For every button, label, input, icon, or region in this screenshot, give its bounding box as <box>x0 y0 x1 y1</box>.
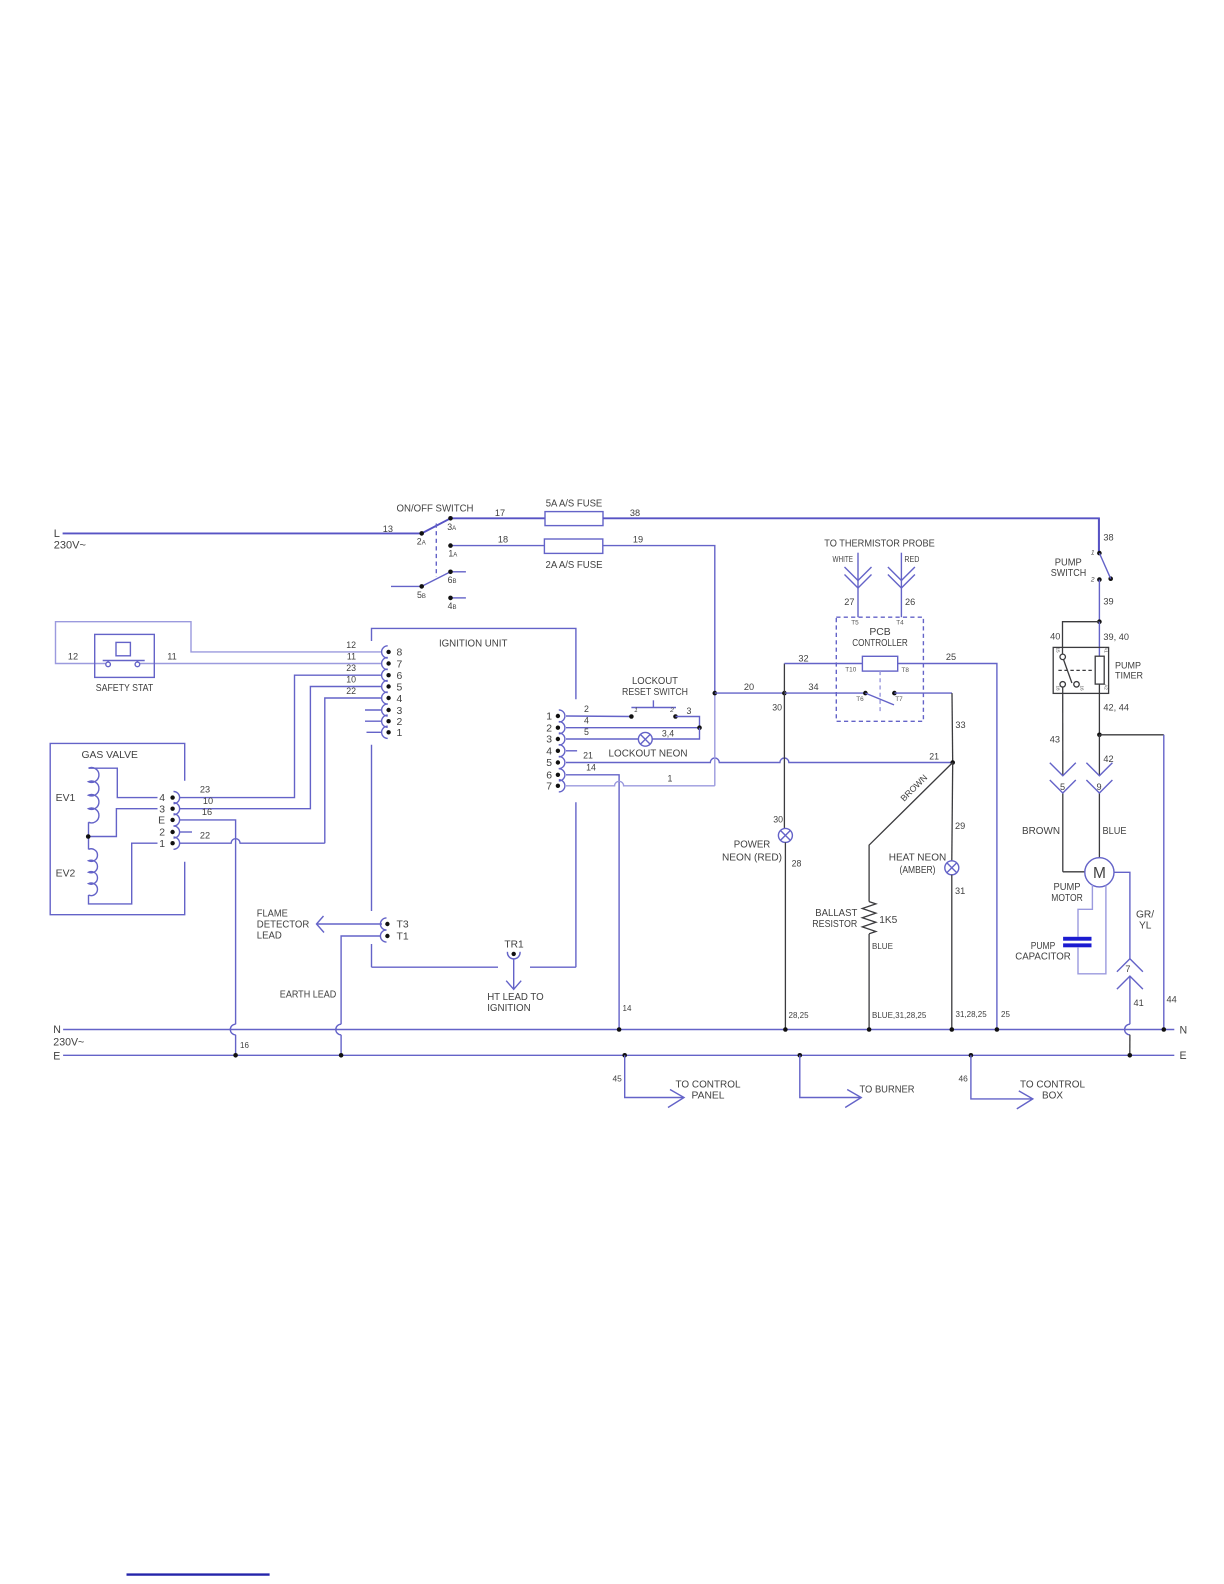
svg-text:M: M <box>1093 865 1106 882</box>
svg-text:30: 30 <box>773 815 783 825</box>
svg-text:16: 16 <box>202 807 212 817</box>
svg-text:N: N <box>53 1024 61 1036</box>
svg-text:HT LEAD TO: HT LEAD TO <box>487 992 544 1003</box>
svg-text:PUMP: PUMP <box>1031 941 1056 952</box>
svg-text:14: 14 <box>586 763 596 773</box>
svg-text:45: 45 <box>612 1073 622 1083</box>
svg-text:32: 32 <box>798 654 808 664</box>
svg-text:13: 13 <box>383 524 393 534</box>
svg-text:9: 9 <box>1096 782 1101 792</box>
svg-text:RESISTOR: RESISTOR <box>812 919 857 930</box>
svg-text:31,28,25: 31,28,25 <box>956 1010 988 1019</box>
svg-text:6: 6 <box>397 671 403 682</box>
svg-text:230V~: 230V~ <box>53 1037 84 1049</box>
svg-text:15: 15 <box>1056 647 1061 653</box>
svg-text:22: 22 <box>200 831 210 841</box>
svg-text:7: 7 <box>1125 964 1130 974</box>
svg-text:PCB: PCB <box>869 627 890 638</box>
svg-text:EARTH LEAD: EARTH LEAD <box>280 990 337 1001</box>
svg-text:33: 33 <box>955 720 965 730</box>
svg-text:BLUE,31,28,25: BLUE,31,28,25 <box>872 1011 927 1020</box>
svg-text:WHITE: WHITE <box>833 555 854 564</box>
svg-text:CONTROLLER: CONTROLLER <box>852 638 908 649</box>
svg-text:20: 20 <box>744 682 754 692</box>
svg-text:4: 4 <box>584 716 589 726</box>
svg-text:2A: 2A <box>417 537 426 547</box>
svg-text:42: 42 <box>1103 754 1113 764</box>
svg-text:7: 7 <box>397 659 403 670</box>
svg-text:TO CONTROL: TO CONTROL <box>1020 1080 1085 1091</box>
svg-text:21: 21 <box>929 751 939 761</box>
svg-text:T4: T4 <box>896 620 904 627</box>
svg-text:5: 5 <box>546 758 552 769</box>
svg-text:28,25: 28,25 <box>789 1011 810 1020</box>
svg-text:SAFETY STAT: SAFETY STAT <box>96 683 154 694</box>
svg-text:22: 22 <box>346 686 356 696</box>
svg-text:(AMBER): (AMBER) <box>900 865 936 876</box>
svg-text:BROWN: BROWN <box>898 772 929 803</box>
svg-text:3: 3 <box>397 706 403 717</box>
svg-text:46: 46 <box>958 1074 968 1084</box>
svg-text:LEAD: LEAD <box>257 930 282 941</box>
svg-text:TIMER: TIMER <box>1115 670 1143 680</box>
svg-text:FLAME: FLAME <box>257 908 288 919</box>
svg-text:14: 14 <box>623 1004 632 1013</box>
svg-text:T10: T10 <box>845 667 856 674</box>
svg-text:19: 19 <box>633 535 643 545</box>
svg-text:EV2: EV2 <box>56 868 76 879</box>
svg-text:5: 5 <box>584 727 589 737</box>
svg-text:25: 25 <box>1001 1010 1010 1019</box>
svg-text:12: 12 <box>346 640 356 650</box>
svg-text:MOTOR: MOTOR <box>1051 893 1083 904</box>
svg-text:29: 29 <box>955 821 965 831</box>
svg-text:1: 1 <box>159 839 165 850</box>
svg-text:A1: A1 <box>1104 647 1109 653</box>
svg-text:21: 21 <box>583 750 593 760</box>
svg-text:1K5: 1K5 <box>879 915 897 926</box>
svg-text:1: 1 <box>546 712 552 723</box>
svg-text:BLUE: BLUE <box>1103 826 1127 837</box>
svg-text:TO CONTROL: TO CONTROL <box>676 1080 741 1091</box>
svg-text:ON/OFF SWITCH: ON/OFF SWITCH <box>397 503 474 514</box>
svg-text:5B: 5B <box>417 590 426 600</box>
svg-text:3,4: 3,4 <box>662 728 674 738</box>
svg-text:A2: A2 <box>1104 684 1109 690</box>
svg-text:NEON (RED): NEON (RED) <box>722 852 782 863</box>
svg-text:LOCKOUT: LOCKOUT <box>632 676 678 687</box>
svg-text:BROWN: BROWN <box>1022 826 1060 837</box>
svg-text:YL: YL <box>1139 921 1152 932</box>
svg-text:25: 25 <box>946 652 956 662</box>
svg-text:4B: 4B <box>448 601 457 611</box>
svg-text:28: 28 <box>792 859 802 869</box>
svg-text:2: 2 <box>397 717 403 728</box>
svg-text:BOX: BOX <box>1042 1091 1063 1102</box>
svg-text:42, 44: 42, 44 <box>1103 703 1129 713</box>
svg-text:E: E <box>158 816 165 827</box>
svg-text:41: 41 <box>1134 998 1144 1008</box>
svg-text:8: 8 <box>397 648 403 659</box>
svg-text:5A A/S FUSE: 5A A/S FUSE <box>546 499 603 510</box>
svg-text:40: 40 <box>1050 631 1060 641</box>
svg-text:3A: 3A <box>447 522 456 532</box>
svg-text:TO THERMISTOR PROBE: TO THERMISTOR PROBE <box>824 539 935 550</box>
svg-text:T8: T8 <box>902 667 910 674</box>
svg-text:12: 12 <box>68 651 78 661</box>
svg-text:E: E <box>1180 1050 1187 1062</box>
svg-text:26: 26 <box>905 597 915 607</box>
svg-text:3: 3 <box>687 706 692 716</box>
svg-text:10: 10 <box>346 675 356 685</box>
svg-text:2A A/S FUSE: 2A A/S FUSE <box>546 560 603 571</box>
svg-text:PANEL: PANEL <box>692 1091 725 1102</box>
svg-text:34: 34 <box>808 682 818 692</box>
svg-text:SWITCH: SWITCH <box>1051 568 1087 579</box>
svg-text:3: 3 <box>546 735 552 746</box>
svg-text:18: 18 <box>1056 685 1061 691</box>
svg-text:27: 27 <box>844 597 854 607</box>
svg-text:T1: T1 <box>397 932 409 943</box>
svg-text:10: 10 <box>203 796 213 806</box>
svg-text:39, 40: 39, 40 <box>1103 632 1129 642</box>
svg-text:PUMP: PUMP <box>1115 661 1141 671</box>
svg-text:1A: 1A <box>448 548 457 558</box>
svg-text:L: L <box>54 528 60 540</box>
svg-text:2: 2 <box>584 704 589 714</box>
svg-text:4: 4 <box>159 793 165 804</box>
svg-text:1: 1 <box>634 707 638 714</box>
svg-text:31: 31 <box>955 886 965 896</box>
svg-text:PUMP: PUMP <box>1055 557 1082 568</box>
svg-text:IGNITION: IGNITION <box>487 1003 531 1014</box>
svg-text:DETECTOR: DETECTOR <box>257 919 310 930</box>
svg-text:2: 2 <box>159 828 165 839</box>
svg-text:2: 2 <box>669 707 674 714</box>
svg-text:POWER: POWER <box>734 839 771 850</box>
svg-text:17: 17 <box>495 508 505 518</box>
svg-text:39: 39 <box>1103 597 1113 607</box>
svg-text:1: 1 <box>1091 550 1095 557</box>
svg-text:CAPACITOR: CAPACITOR <box>1015 952 1071 963</box>
svg-text:16: 16 <box>1080 685 1085 691</box>
svg-text:2: 2 <box>546 723 552 734</box>
svg-text:2: 2 <box>1090 576 1095 583</box>
svg-text:30: 30 <box>772 703 782 713</box>
svg-text:11: 11 <box>167 651 177 661</box>
svg-text:44: 44 <box>1167 995 1177 1005</box>
svg-text:T5: T5 <box>851 620 859 627</box>
svg-text:TR1: TR1 <box>504 940 524 951</box>
svg-text:43: 43 <box>1050 735 1060 745</box>
svg-text:5: 5 <box>1060 782 1065 792</box>
svg-text:EV1: EV1 <box>56 793 76 804</box>
svg-text:T7: T7 <box>895 696 903 703</box>
svg-text:38: 38 <box>1103 533 1113 543</box>
svg-text:GR/: GR/ <box>1136 910 1154 921</box>
svg-text:GAS VALVE: GAS VALVE <box>81 750 138 761</box>
svg-text:BLUE: BLUE <box>872 942 893 951</box>
svg-text:230V~: 230V~ <box>54 540 86 552</box>
svg-text:11: 11 <box>347 651 356 661</box>
svg-text:RED: RED <box>904 555 919 564</box>
svg-text:TO BURNER: TO BURNER <box>860 1084 915 1095</box>
svg-text:IGNITION UNIT: IGNITION UNIT <box>439 639 508 650</box>
svg-text:38: 38 <box>630 508 640 518</box>
svg-text:RESET SWITCH: RESET SWITCH <box>622 687 688 698</box>
svg-text:LOCKOUT NEON: LOCKOUT NEON <box>609 749 688 760</box>
svg-text:16: 16 <box>240 1041 249 1050</box>
svg-text:PUMP: PUMP <box>1054 882 1081 893</box>
svg-text:T6: T6 <box>856 696 864 703</box>
svg-text:6: 6 <box>546 771 552 782</box>
svg-text:1: 1 <box>397 728 403 739</box>
svg-text:18: 18 <box>498 535 508 545</box>
svg-text:T3: T3 <box>397 920 409 931</box>
svg-text:23: 23 <box>200 785 210 795</box>
svg-text:BALLAST: BALLAST <box>815 908 857 919</box>
svg-text:E: E <box>53 1050 60 1062</box>
svg-text:4: 4 <box>397 694 403 705</box>
svg-text:4: 4 <box>546 747 552 758</box>
svg-text:HEAT NEON: HEAT NEON <box>889 853 947 864</box>
svg-text:6B: 6B <box>448 575 457 585</box>
svg-text:1: 1 <box>668 774 673 784</box>
svg-text:N: N <box>1180 1025 1188 1037</box>
svg-text:23: 23 <box>346 663 356 673</box>
svg-text:7: 7 <box>546 782 552 793</box>
svg-text:5: 5 <box>397 682 403 693</box>
svg-text:3: 3 <box>159 804 165 815</box>
